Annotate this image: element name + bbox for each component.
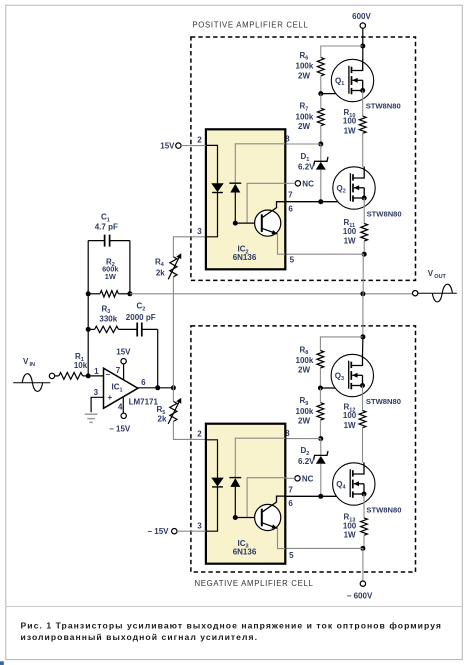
15V opto terminal — [160, 142, 206, 151]
svg-text:V: V — [428, 269, 434, 278]
pin 1 label — [94, 367, 99, 376]
svg-text:6.2V: 6.2V — [298, 457, 315, 466]
pin 7 label — [116, 366, 121, 375]
VIN terminal — [49, 373, 54, 378]
wire — [320, 170, 322, 202]
wire — [362, 254, 364, 294]
svg-text:10k: 10k — [74, 361, 88, 370]
svg-text:1W: 1W — [344, 421, 356, 430]
node R3 left — [86, 327, 91, 332]
svg-text:3: 3 — [197, 227, 202, 236]
node inverting input — [86, 373, 91, 378]
resistor R4 (variable) — [155, 253, 181, 279]
svg-text:STW8N80: STW8N80 — [366, 505, 401, 514]
svg-text:15V: 15V — [116, 348, 131, 357]
-15V supply terminal — [109, 413, 131, 434]
pin 6 label — [288, 204, 293, 213]
node R2 right — [127, 291, 132, 296]
svg-text:NEGATIVE AMPLIFIER CELL: NEGATIVE AMPLIFIER CELL — [194, 579, 313, 588]
wire — [320, 439, 322, 456]
svg-text:1: 1 — [94, 367, 99, 376]
svg-text:3: 3 — [94, 388, 99, 397]
wire — [87, 241, 89, 294]
wire — [363, 241, 365, 254]
svg-text:100: 100 — [343, 521, 357, 530]
ground — [85, 414, 98, 422]
svg-text:V: V — [23, 357, 29, 366]
svg-text:изолированный выходной сигнал: изолированный выходной сигнал усилителя. — [21, 632, 259, 642]
svg-text:− 600V: − 600V — [347, 592, 373, 601]
svg-text:POSITIVE AMPLIFIER CELL: POSITIVE AMPLIFIER CELL — [192, 20, 308, 29]
VOUT label — [418, 269, 457, 302]
node VOUT rail — [360, 291, 365, 296]
Q2 part number — [367, 209, 402, 218]
wire — [362, 428, 364, 463]
resistor R13 — [343, 513, 367, 540]
svg-text:1W: 1W — [105, 272, 116, 281]
svg-text:1W: 1W — [344, 126, 356, 135]
svg-text:Рис. 1 Транзисторы усиливают в: Рис. 1 Транзисторы усиливают выходное на… — [21, 620, 442, 630]
svg-text:6: 6 — [141, 378, 146, 387]
svg-text:2k: 2k — [158, 414, 167, 423]
wire — [362, 46, 364, 60]
svg-text:STW8N80: STW8N80 — [367, 209, 402, 218]
zener D2 — [298, 446, 328, 466]
svg-text:2W: 2W — [298, 417, 310, 426]
zener D1 — [298, 152, 328, 172]
Q4 part number — [366, 505, 401, 514]
transistor Q3 — [331, 354, 373, 397]
pin 4 label — [118, 402, 123, 411]
wire pin3 — [91, 397, 103, 412]
svg-text:− 15V: − 15V — [109, 425, 131, 434]
resistor R2 — [88, 257, 130, 297]
node pin5 IC3 — [360, 546, 365, 551]
svg-text:2: 2 — [197, 135, 202, 144]
wire — [362, 91, 364, 117]
wire — [157, 329, 159, 387]
node pin8 IC3 — [318, 436, 323, 441]
svg-text:STW8N80: STW8N80 — [366, 101, 401, 110]
resistor R6 — [296, 51, 325, 80]
opto IC2 — [206, 129, 285, 269]
-600V supply — [347, 581, 373, 601]
pin 8 label — [285, 429, 290, 438]
svg-text:1W: 1W — [344, 531, 356, 540]
resistor R3 — [88, 304, 137, 332]
svg-text:7: 7 — [288, 485, 293, 494]
wire — [320, 464, 322, 497]
wire R5 to IC3 pin2 — [173, 421, 206, 439]
svg-text:6: 6 — [288, 499, 293, 508]
svg-text:6: 6 — [288, 204, 293, 213]
svg-text:3: 3 — [197, 521, 202, 530]
pin 8 label — [285, 134, 290, 143]
svg-text:6N136: 6N136 — [233, 548, 257, 557]
blue corner mark — [0, 661, 4, 665]
wire pin8 IC3 — [285, 438, 321, 440]
wire — [319, 388, 321, 403]
svg-text:100k: 100k — [296, 356, 314, 365]
Q3 part number — [366, 397, 401, 406]
wire — [319, 420, 321, 439]
svg-text:2k: 2k — [156, 269, 165, 278]
pin 3 label — [94, 388, 99, 397]
wire — [55, 375, 59, 377]
wire pin3 IC2 to R4 — [173, 237, 206, 257]
node output — [171, 385, 176, 390]
svg-text:1W: 1W — [344, 236, 356, 245]
VOUT terminal — [413, 291, 418, 296]
svg-text:100k: 100k — [296, 113, 314, 122]
pin 3 label — [197, 521, 202, 530]
transistor Q1 — [331, 59, 373, 102]
negative amplifier cell box — [191, 326, 416, 572]
svg-text:5: 5 — [289, 551, 294, 560]
svg-text:2: 2 — [197, 430, 202, 439]
wire — [129, 241, 131, 294]
wire — [321, 46, 363, 57]
wire — [83, 375, 104, 377]
pin 7 label — [288, 485, 293, 494]
wire — [320, 337, 363, 351]
NC pin — [285, 474, 313, 483]
svg-text:4: 4 — [118, 402, 123, 411]
wire — [319, 368, 321, 388]
svg-text:100: 100 — [343, 117, 357, 126]
resistor R12 — [343, 403, 366, 430]
node pin5 IC2 — [362, 252, 367, 257]
node negative top — [360, 334, 365, 339]
svg-text:6N136: 6N136 — [233, 253, 257, 262]
node Q2 gate — [318, 199, 323, 204]
600V supply — [352, 12, 371, 28]
node C2-output — [155, 385, 160, 390]
positive cell title — [192, 20, 308, 29]
wire gate Q3 — [320, 387, 348, 389]
caption separator — [6, 606, 463, 608]
wire — [362, 28, 364, 46]
wire — [363, 535, 365, 548]
pin 6 label — [141, 378, 146, 387]
VIN source symbol — [13, 357, 50, 391]
pin 2 label — [197, 135, 202, 144]
wire — [362, 133, 364, 167]
NC pin — [285, 179, 314, 188]
svg-text:7: 7 — [116, 366, 121, 375]
positive amplifier cell box — [191, 37, 416, 280]
node 600V — [360, 44, 365, 49]
svg-text:IN: IN — [30, 362, 36, 368]
wire pin5 IC2 — [285, 253, 364, 255]
wire — [320, 126, 322, 144]
svg-text:15V: 15V — [160, 142, 175, 151]
svg-text:2W: 2W — [298, 366, 310, 375]
resistor R5 (variable) — [157, 398, 182, 424]
svg-text:2W: 2W — [298, 71, 310, 80]
node Q1 gate — [318, 91, 323, 96]
resistor R9 — [296, 396, 324, 425]
wire R5 from output node — [172, 388, 174, 402]
resistor R7 — [296, 102, 325, 131]
pin 5 label — [289, 551, 294, 560]
node R2 left — [86, 291, 91, 296]
wire gate Q1 — [321, 93, 349, 95]
wire gate Q4 / pin6 IC3 — [285, 495, 350, 497]
resistor R8 — [296, 345, 324, 374]
svg-text:2000 pF: 2000 pF — [126, 313, 156, 322]
svg-text:−: − — [105, 370, 110, 379]
wire feedback to VOUT — [130, 293, 413, 295]
node Q3 gate — [318, 386, 323, 391]
wire rail to negative cell — [362, 294, 364, 337]
wire — [320, 76, 322, 94]
15V supply terminal — [116, 348, 131, 364]
resistor R10 — [343, 108, 366, 135]
svg-text:6.2V: 6.2V — [298, 163, 315, 172]
wire to -600V — [362, 548, 364, 581]
opto IC3 — [206, 424, 285, 564]
transistor Q2 — [333, 167, 375, 210]
op-amp U1 IC1 — [104, 368, 159, 408]
wire R4 to output node — [172, 277, 174, 388]
pin 5 label — [290, 255, 295, 264]
svg-text:2W: 2W — [298, 122, 310, 131]
node pin8 IC2 — [318, 142, 323, 147]
pin 7 label — [288, 190, 293, 199]
svg-text:NC: NC — [302, 474, 314, 483]
pin 2 label — [197, 430, 202, 439]
svg-text:100k: 100k — [296, 62, 314, 71]
wire gate Q2 / pin6 IC2 — [285, 201, 350, 203]
svg-text:100: 100 — [343, 411, 357, 420]
wire pin8 IC2 — [285, 143, 321, 145]
pin 6 label — [288, 499, 293, 508]
svg-text:LM7171: LM7171 — [129, 398, 159, 407]
svg-text:100k: 100k — [296, 407, 314, 416]
caption text — [21, 620, 442, 642]
svg-text:+: + — [107, 392, 112, 402]
node Q4 gate — [318, 494, 323, 499]
capacitor C2 — [126, 302, 158, 337]
resistor R11 — [343, 218, 368, 245]
wire pin5 IC3 — [285, 547, 363, 549]
wire — [87, 294, 89, 376]
svg-text:330k: 330k — [99, 315, 117, 324]
wire pin4 — [122, 397, 124, 413]
wire output — [138, 387, 174, 389]
negative cell title — [194, 579, 313, 588]
wire — [362, 337, 364, 355]
-15V opto terminal — [147, 527, 206, 536]
svg-text:100: 100 — [343, 227, 357, 236]
wire — [320, 144, 322, 161]
resistor R1 — [59, 352, 88, 379]
wire pin7 — [123, 364, 125, 380]
svg-text:5: 5 — [290, 255, 295, 264]
wire — [362, 386, 364, 411]
pin 3 label — [197, 227, 202, 236]
Q1 part number — [366, 101, 401, 110]
wire — [363, 198, 365, 224]
svg-text:7: 7 — [288, 190, 293, 199]
svg-text:OUT: OUT — [434, 274, 446, 280]
wire — [320, 94, 322, 109]
svg-text:− 15V: − 15V — [147, 527, 169, 536]
capacitor C1 — [88, 213, 130, 247]
svg-text:STW8N80: STW8N80 — [366, 397, 401, 406]
svg-text:NC: NC — [302, 179, 314, 188]
transistor Q4 — [333, 463, 375, 506]
svg-text:600V: 600V — [352, 12, 371, 21]
wire — [363, 494, 365, 518]
svg-text:4.7 pF: 4.7 pF — [95, 222, 118, 231]
